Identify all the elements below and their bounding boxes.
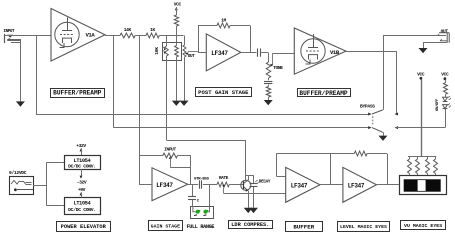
svg-text:INPUT: INPUT — [164, 148, 176, 153]
svg-text:BUFFER/PREAMP: BUFFER/PREAMP — [53, 90, 102, 97]
svg-text:+9V: +9V — [78, 187, 86, 193]
svg-text:VCC: VCC — [441, 72, 449, 78]
svg-text:GTR-BSS: GTR-BSS — [194, 177, 210, 181]
svg-text:VU MAGIC EYES: VU MAGIC EYES — [404, 223, 442, 229]
svg-text:LF347: LF347 — [291, 182, 308, 189]
svg-text:-32V: -32V — [77, 180, 87, 186]
svg-text:BYPASS: BYPASS — [360, 104, 375, 110]
svg-text:9/12VDC: 9/12VDC — [9, 170, 27, 176]
svg-text:LEVEL MAGIC EYES: LEVEL MAGIC EYES — [340, 224, 387, 230]
svg-text:BUFFER: BUFFER — [293, 223, 314, 230]
svg-text:INPUT: INPUT — [4, 30, 15, 34]
svg-text:GAIN STAGE: GAIN STAGE — [151, 223, 180, 229]
svg-text:V1B: V1B — [330, 49, 340, 56]
svg-text:14K: 14K — [124, 27, 132, 33]
svg-text:1M: 1M — [221, 18, 226, 24]
svg-text:POWER ELEVATOR: POWER ELEVATOR — [61, 224, 107, 230]
svg-text:TONE: TONE — [273, 65, 283, 71]
svg-text:10K: 10K — [154, 47, 160, 55]
svg-text:LF347: LF347 — [211, 50, 228, 57]
svg-text:LF347: LF347 — [348, 182, 365, 189]
svg-text:LT1054: LT1054 — [74, 158, 91, 164]
svg-text:OUT: OUT — [188, 54, 196, 59]
svg-text:LDR COMPRES.: LDR COMPRES. — [231, 222, 269, 228]
svg-text:LT1054: LT1054 — [74, 201, 91, 207]
svg-text:1K: 1K — [150, 27, 155, 33]
svg-text:VCC: VCC — [174, 2, 182, 8]
svg-text:DECAY: DECAY — [259, 179, 271, 184]
svg-text:RATE: RATE — [219, 176, 229, 181]
svg-text:POST GAIN STAGE: POST GAIN STAGE — [198, 89, 249, 96]
svg-text:LF347: LF347 — [156, 182, 173, 189]
svg-text:V1A: V1A — [86, 31, 96, 38]
svg-text:BUFFER/PREAMP: BUFFER/PREAMP — [299, 90, 348, 97]
svg-text:DC/DC CONV.: DC/DC CONV. — [68, 164, 96, 170]
svg-text:+32V: +32V — [76, 143, 86, 149]
svg-text:ON/OFF: ON/OFF — [435, 98, 440, 111]
svg-text:DC/DC CONV.: DC/DC CONV. — [68, 207, 96, 213]
svg-text:VCC: VCC — [417, 72, 425, 78]
svg-text:FULL RANGE: FULL RANGE — [187, 224, 215, 230]
